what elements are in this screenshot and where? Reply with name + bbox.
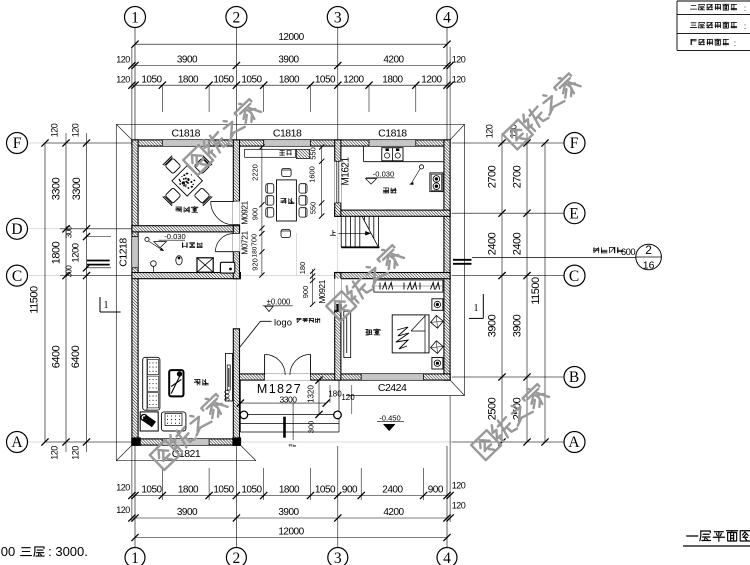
svg-text:3900: 3900 (278, 507, 299, 518)
svg-text:C1218: C1218 (118, 238, 130, 267)
door leaf M0721 bathroom (215, 251, 233, 253)
svg-text:300: 300 (307, 421, 316, 434)
column block SW corner (131, 437, 140, 446)
apron corner diagonal bottom-left (116, 445, 132, 461)
svg-text:900: 900 (428, 484, 444, 495)
bedroom door leaf cabinet (344, 311, 351, 357)
svg-text:1800: 1800 (178, 484, 199, 495)
svg-text:2: 2 (233, 9, 241, 26)
svg-text:B: B (569, 369, 579, 386)
svg-text:11500: 11500 (530, 277, 542, 305)
bedroom nightstands (432, 299, 443, 311)
svg-text:1050: 1050 (213, 74, 234, 85)
info table row2 三层建筑面积 (691, 22, 696, 24)
svg-text:12000: 12000 (278, 526, 304, 537)
svg-text:12000: 12000 (278, 32, 304, 43)
svg-text:120: 120 (341, 393, 355, 402)
wall top F axis (132, 140, 450, 146)
svg-text:1050: 1050 (141, 74, 162, 85)
section cut bars right (453, 259, 472, 261)
svg-text:6400: 6400 (70, 345, 82, 368)
right extension stubs (452, 142, 564, 144)
svg-text:1050: 1050 (213, 484, 234, 495)
dim 1320 porch right (318, 380, 320, 414)
wall axis2 game room right (233, 140, 239, 232)
svg-text:180: 180 (298, 262, 307, 275)
svg-text:2700: 2700 (487, 165, 499, 188)
svg-text:E: E (569, 205, 578, 222)
watermark 图纸之家 top-right (502, 71, 582, 150)
svg-text:1800: 1800 (279, 484, 300, 495)
svg-text:700: 700 (250, 234, 259, 247)
window C1821 living south (162, 439, 209, 445)
svg-text:1050: 1050 (241, 74, 262, 85)
living room coffee table (169, 370, 183, 396)
right dimension chains (501, 143, 503, 442)
svg-text:300: 300 (65, 225, 74, 238)
svg-text:2500: 2500 (487, 397, 499, 420)
apron corner diagonal porch-left (240, 445, 256, 461)
bedroom wardrobe top (374, 280, 443, 292)
svg-text:1600: 1600 (308, 166, 317, 183)
info table row3 总建筑面积 (691, 39, 696, 41)
wall E axis kitchen bottom (335, 210, 450, 216)
door opening M0721 bathroom (233, 234, 240, 252)
bathroom pedestal sink (151, 261, 157, 267)
svg-text:2400: 2400 (512, 232, 524, 255)
svg-text:180: 180 (328, 390, 342, 399)
title 一层平面图 (687, 535, 698, 537)
svg-text:D: D (11, 221, 22, 238)
living room armchair (161, 412, 186, 431)
svg-text:1200: 1200 (71, 243, 82, 262)
svg-text::: : (744, 22, 746, 31)
door opening M1621 kitchen (334, 161, 341, 203)
svg-text:: 3000.: : 3000. (48, 544, 88, 559)
svg-text:C1818: C1818 (273, 128, 302, 140)
svg-text:C: C (569, 268, 579, 285)
label game room 娱乐室 (176, 206, 181, 208)
wall C axis bedroom top (335, 273, 450, 279)
svg-text:900: 900 (301, 286, 310, 299)
left dimension chains (44, 143, 46, 442)
label kitchen 厨房 (383, 187, 388, 189)
section cut bars left (87, 260, 110, 262)
svg-text:1800: 1800 (51, 241, 63, 264)
axis circles bottom (125, 548, 145, 565)
svg-text:C: C (12, 268, 22, 285)
detail circle 2/16 (636, 244, 662, 270)
stair treads (340, 216, 342, 247)
svg-text:3900: 3900 (278, 54, 299, 65)
svg-text:A: A (568, 434, 580, 451)
column block living SE corner (232, 437, 241, 446)
svg-text:A: A (11, 434, 23, 451)
svg-text:1800: 1800 (178, 74, 199, 85)
svg-text:3: 3 (334, 550, 342, 565)
dim 3300 porch (240, 402, 326, 404)
label bedroom 卧室 (366, 328, 368, 330)
svg-text:2400: 2400 (382, 484, 403, 495)
svg-text:120: 120 (116, 482, 130, 492)
svg-text:M0921: M0921 (317, 279, 327, 303)
svg-text:2400: 2400 (487, 232, 499, 255)
door opening M0921 bedroom (334, 279, 341, 305)
svg-text:4200: 4200 (383, 54, 404, 65)
top dimension row segments (132, 84, 450, 86)
window C1218 left wall (132, 237, 138, 268)
porch columns (240, 411, 248, 419)
label dining 餐厅 (281, 197, 286, 199)
svg-text:16: 16 (643, 260, 655, 272)
bed quilt scribble (396, 327, 409, 349)
svg-text:3300: 3300 (71, 177, 83, 200)
label living 客厅 (194, 379, 200, 381)
wall left axis1 (132, 140, 138, 445)
apron corner diagonal bottom-right (450, 380, 464, 395)
svg-text:M0921: M0921 (240, 200, 250, 224)
section marker 1 right (482, 294, 484, 318)
bed pillows (431, 315, 444, 328)
svg-text:3900: 3900 (512, 314, 524, 337)
bathroom washing machine (220, 262, 234, 273)
label 神位 (280, 150, 285, 152)
axis circles top (134, 27, 136, 140)
wall D axis (132, 226, 240, 232)
apron outline (116, 124, 464, 395)
bathroom shower tray (197, 258, 213, 272)
dim chain axis3 wall texts (321, 147, 323, 216)
label bathroom 卫生间 (182, 243, 184, 248)
wall axis2 bathroom right (233, 226, 239, 279)
kitchen stove (430, 173, 443, 192)
bottom dimension rows (132, 495, 450, 497)
door opening M1827 entrance (265, 374, 311, 381)
wall right axis4 (444, 140, 450, 380)
window C1818 bay1 (162, 140, 209, 146)
label 上 (332, 230, 334, 235)
svg-text:-0.450: -0.450 (379, 413, 401, 422)
logo screen leader and label (239, 321, 271, 347)
svg-text:120: 120 (485, 124, 495, 138)
svg-text:1200: 1200 (343, 74, 364, 85)
game room chairs (163, 156, 182, 175)
svg-text:1: 1 (131, 550, 139, 565)
dim chain bedroom door (312, 269, 314, 305)
bed blanket fold (411, 316, 425, 331)
svg-text:900: 900 (342, 484, 358, 495)
svg-text:±0.000: ±0.000 (267, 297, 291, 306)
svg-text:1050: 1050 (241, 484, 262, 495)
game room mahjong table (172, 166, 203, 197)
svg-text:120: 120 (452, 480, 466, 490)
svg-text:11500: 11500 (29, 286, 41, 314)
living room long sofa (143, 357, 160, 410)
wall axis3 bedroom left (335, 273, 341, 381)
living room TV cabinet (225, 353, 232, 401)
axis circles right (564, 133, 585, 154)
stair bottom edge (341, 246, 379, 248)
svg-text:1050: 1050 (315, 484, 336, 495)
living room corner plant table (140, 412, 158, 431)
svg-text:120: 120 (452, 74, 466, 84)
svg-text:1: 1 (104, 300, 109, 311)
svg-text:550: 550 (309, 202, 318, 215)
info table row1 二层建筑面积 (691, 5, 696, 7)
bathroom toilet (176, 256, 182, 265)
bedroom bed (392, 315, 429, 353)
section marker 1 left (99, 297, 101, 312)
svg-text:180: 180 (252, 246, 259, 257)
svg-text:4200: 4200 (383, 507, 404, 518)
svg-text:120: 120 (452, 501, 466, 511)
svg-text:F: F (13, 135, 22, 152)
svg-text:120: 120 (71, 123, 81, 137)
window C1818 bay2 (264, 140, 311, 146)
svg-text::: : (734, 39, 736, 48)
apron corner diagonal top-right (450, 124, 464, 140)
svg-text:4: 4 (443, 9, 451, 26)
info table (677, 0, 750, 2)
svg-text:logo: logo (274, 318, 292, 329)
wall axis2 living screen wall (233, 329, 239, 445)
hall construction line (295, 233, 297, 276)
apron corner diagonal top-left (116, 124, 132, 140)
porch steps (240, 413, 339, 415)
section cut line through porch (283, 417, 286, 438)
door leaves M1827 entrance (264, 354, 266, 375)
svg-text:-0.030: -0.030 (373, 170, 395, 179)
wall C axis bathroom (132, 273, 241, 279)
svg-text:900: 900 (251, 208, 260, 221)
svg-text:1: 1 (131, 9, 139, 26)
svg-text:2220: 2220 (251, 164, 260, 181)
svg-text:1800: 1800 (382, 74, 403, 85)
svg-text:3300: 3300 (51, 177, 63, 200)
svg-text:C2424: C2424 (378, 382, 407, 394)
svg-text:1: 1 (474, 303, 479, 314)
axis grid faint lines (134, 27, 136, 139)
wall axis3 dining right (335, 140, 341, 216)
stair up arrow (338, 232, 369, 234)
door opening M0921 game room (233, 201, 240, 224)
svg-text:3900: 3900 (177, 507, 198, 518)
svg-text:C1818: C1818 (171, 128, 200, 140)
svg-text:120: 120 (116, 74, 130, 84)
watermark 图纸之家 bottom-right (470, 382, 550, 461)
svg-text::: : (744, 4, 746, 13)
wall bottom A axis living room (132, 439, 241, 445)
svg-text:2: 2 (233, 550, 241, 565)
svg-text:M1621: M1621 (341, 157, 352, 186)
svg-text:300: 300 (223, 390, 232, 401)
watermark 图纸之家 top-left (182, 97, 262, 176)
kitchen floor drain (419, 165, 423, 169)
kitchen sink (382, 148, 403, 161)
svg-text:C1818: C1818 (378, 128, 407, 140)
svg-text:3900: 3900 (487, 314, 499, 337)
svg-text:1800: 1800 (279, 74, 300, 85)
svg-text:120: 120 (452, 54, 466, 64)
column block bedroom door jamb (335, 304, 341, 312)
svg-text:1200: 1200 (421, 74, 442, 85)
svg-text:3: 3 (334, 9, 342, 26)
top dimension row bays (132, 65, 450, 67)
svg-text:120: 120 (50, 123, 60, 137)
axis circles left (7, 133, 28, 154)
wall B axis south (233, 374, 450, 380)
svg-text:00: 00 (1, 544, 15, 559)
dining table (277, 180, 297, 221)
svg-text:2: 2 (645, 243, 652, 257)
svg-text:3300: 3300 (280, 395, 298, 405)
left extension stubs (45, 142, 132, 144)
top dimension row 12000 (135, 43, 447, 45)
watermark 图纸之家 bottom-left (149, 391, 229, 470)
svg-text:120: 120 (71, 446, 81, 460)
shrine shelf 神位 (245, 149, 296, 157)
svg-text:2700: 2700 (512, 165, 524, 188)
dining chairs (266, 184, 274, 193)
stair break line (362, 216, 379, 247)
svg-text:120: 120 (50, 446, 60, 460)
svg-text:920: 920 (251, 258, 260, 271)
watermark 图纸之家 middle (325, 243, 405, 322)
top extension lines (161, 85, 163, 112)
svg-text:6400: 6400 (51, 345, 63, 368)
svg-text:550: 550 (309, 147, 318, 160)
door leaf M0921 game room (211, 200, 234, 202)
bathroom floor drain (145, 237, 149, 241)
apron width note 散水宽度600 (472, 257, 636, 259)
svg-text:-0.030: -0.030 (164, 232, 186, 241)
window C1818 bay3 (369, 140, 416, 146)
svg-text:1050: 1050 (141, 484, 162, 495)
svg-text:M0721: M0721 (240, 230, 250, 254)
svg-text:4: 4 (443, 550, 451, 565)
bottom extension lines (161, 468, 163, 500)
svg-text:600: 600 (621, 247, 636, 258)
kitchen counter (363, 146, 365, 162)
svg-text:3900: 3900 (177, 54, 198, 65)
svg-text:120: 120 (116, 505, 130, 515)
window C2424 bedroom south (361, 374, 423, 380)
svg-text:120: 120 (116, 54, 130, 64)
svg-text:1050: 1050 (315, 74, 336, 85)
svg-text:1320: 1320 (307, 385, 316, 403)
svg-text:F: F (570, 135, 579, 152)
